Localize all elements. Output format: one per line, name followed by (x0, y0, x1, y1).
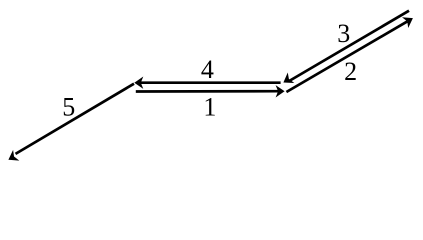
arrowhead of vector 5 (down-left) (5, 150, 19, 165)
arrowhead of vector 3 (up-right) (402, 13, 416, 28)
vector 5 shaft (lower-left diagonal) (16, 84, 135, 154)
svg-text:5: 5 (62, 92, 75, 121)
vector 4 shaft (top horizontal line, leftward) (140, 81, 281, 84)
svg-text:1: 1 (203, 92, 216, 121)
svg-text:2: 2 (344, 57, 357, 86)
svg-text:3: 3 (337, 19, 350, 48)
vector 3 shaft (lower diagonal) (286, 21, 407, 92)
vector 1 shaft (bottom horizontal line, rightward) (136, 90, 278, 93)
vector 2 shaft (upper diagonal) (290, 11, 409, 81)
svg-text:4: 4 (201, 55, 214, 84)
arrowhead of vector 1 (right-pointing) (276, 85, 285, 97)
arrowhead of vector 2 (down-left) (280, 72, 294, 87)
arrowhead of vector 4 (left-pointing) (134, 77, 143, 89)
